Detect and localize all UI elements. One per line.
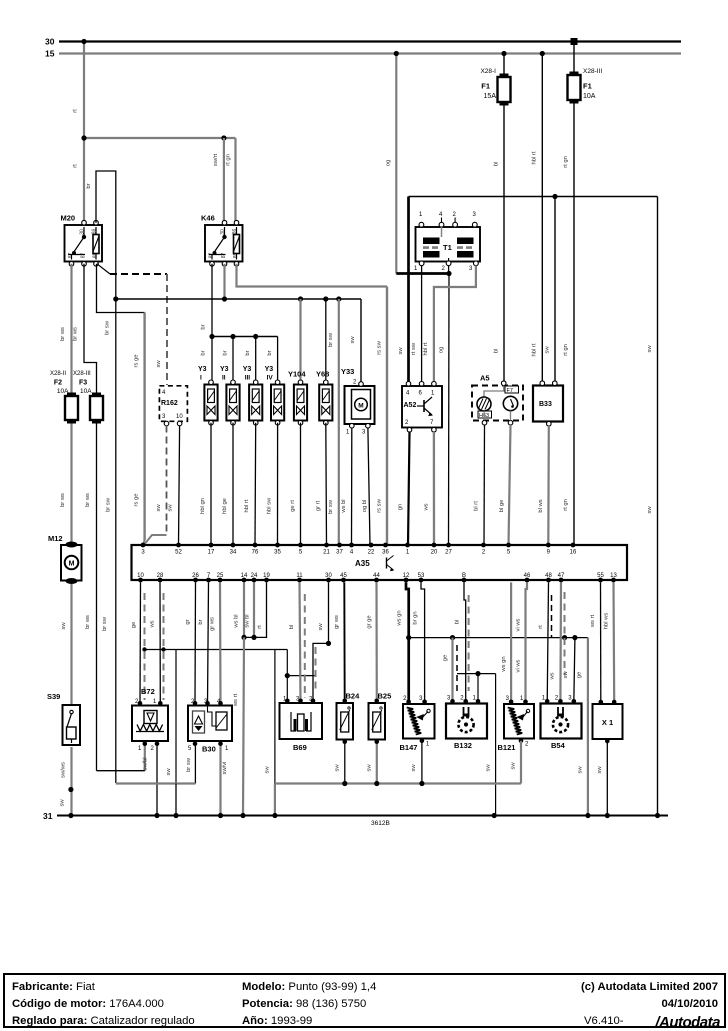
svg-text:B24: B24 [346,692,361,701]
svg-text:F2: F2 [54,380,62,387]
svg-text:28: 28 [157,573,164,579]
svg-text:gr: gr [185,619,191,624]
svg-text:br: br [267,350,273,355]
svg-text:T1: T1 [443,243,452,252]
svg-text:sw/ws: sw/ws [61,762,67,778]
svg-text:sw: sw [166,768,172,776]
svg-text:gr rt: gr rt [316,500,322,511]
svg-text:sw: sw [511,762,517,770]
svg-text:Y68: Y68 [316,370,329,379]
svg-text:Y33: Y33 [341,367,354,376]
svg-text:47: 47 [558,573,565,579]
svg-text:F1: F1 [583,82,592,91]
svg-text:24: 24 [251,573,258,579]
svg-text:sw: sw [398,347,404,355]
svg-text:rt gn: rt gn [563,156,569,168]
svg-text:K46: K46 [201,214,215,223]
svg-text:bl rt: bl rt [474,501,480,511]
svg-text:br sw: br sw [105,320,111,335]
svg-text:rs sw: rs sw [377,340,383,354]
svg-text:F3: F3 [79,380,87,387]
svg-text:10A: 10A [583,93,596,100]
svg-text:21: 21 [323,550,330,556]
svg-text:br: br [201,324,207,329]
svg-text:11: 11 [296,573,303,579]
svg-text:M: M [358,403,363,410]
svg-text:III: III [245,375,251,382]
svg-text:rt: rt [257,625,263,629]
svg-text:46: 46 [524,573,531,579]
svg-text:55: 55 [597,573,604,579]
svg-text:76: 76 [252,550,259,556]
svg-text:hbl rt: hbl rt [532,151,538,164]
svg-text:26: 26 [192,573,199,579]
svg-text:44: 44 [373,573,380,579]
svg-text:ws bl: ws bl [341,499,347,513]
svg-text:S39: S39 [47,692,60,701]
svg-text:B121: B121 [498,743,516,752]
svg-text:br sw: br sw [186,757,192,772]
svg-text:ge: ge [577,672,583,678]
svg-text:25: 25 [217,573,224,579]
svg-text:31: 31 [43,811,53,821]
svg-text:10: 10 [137,573,144,579]
svg-text:br sw: br sw [328,499,334,514]
svg-text:hbl sw: hbl sw [267,497,273,514]
svg-text:X28-II: X28-II [50,371,66,377]
svg-text:34: 34 [230,550,237,556]
svg-text:br ws: br ws [85,615,91,629]
svg-text:rt: rt [73,164,79,168]
svg-text:sw/vi: sw/vi [222,762,228,775]
svg-text:20: 20 [431,550,438,556]
svg-text:hbl rt: hbl rt [532,343,538,356]
svg-text:gr ws: gr ws [334,615,340,629]
svg-text:X28-III: X28-III [583,68,602,75]
svg-text:ge: ge [131,622,137,628]
svg-text:I: I [200,375,202,382]
svg-text:3612B: 3612B [371,820,390,827]
svg-text:br: br [201,350,207,355]
svg-text:10A: 10A [80,388,92,395]
svg-text:sw: sw [647,506,653,514]
svg-text:M12: M12 [48,534,63,543]
svg-text:br gn: br gn [413,611,419,624]
svg-text:B33: B33 [539,401,552,408]
svg-text:16: 16 [570,550,577,556]
svg-text:sw: sw [335,764,341,772]
svg-text:87: 87 [81,253,87,259]
svg-text:sw: sw [156,360,162,368]
svg-text:sw: sw [563,671,569,679]
svg-text:13: 13 [610,573,617,579]
svg-text:og bl: og bl [362,500,368,513]
svg-text:rs ge: rs ge [134,355,140,368]
svg-text:br: br [86,183,92,188]
svg-text:hbl ws: hbl ws [604,613,610,630]
svg-text:35: 35 [274,550,281,556]
svg-text:og: og [439,347,445,353]
svg-text:bl: bl [494,349,500,354]
svg-text:F1: F1 [481,82,490,91]
svg-text:sw: sw [647,345,653,353]
svg-text:ws rt: ws rt [233,693,239,707]
svg-text:sw bl: sw bl [245,614,251,627]
svg-text:B72: B72 [141,687,155,696]
svg-text:rs sw: rs sw [377,498,383,512]
svg-text:B147: B147 [400,743,418,752]
svg-text:37: 37 [336,550,343,556]
svg-text:sw: sw [367,764,373,772]
svg-text:36: 36 [382,550,389,556]
svg-text:Y3: Y3 [265,366,274,373]
svg-text:br sw: br sw [102,616,108,631]
svg-text:br: br [223,350,229,355]
svg-text:87: 87 [221,253,227,259]
svg-text:II: II [222,375,226,382]
svg-text:ge: ge [443,655,449,661]
svg-text:ws: ws [550,672,556,680]
svg-text:sw: sw [411,764,417,772]
svg-text:B30: B30 [202,745,216,754]
svg-text:vi ws: vi ws [516,618,522,631]
svg-text:86: 86 [232,229,238,235]
svg-text:Y3: Y3 [243,366,252,373]
svg-text:ws rt: ws rt [590,614,596,628]
svg-text:14: 14 [241,573,248,579]
svg-text:rt gn: rt gn [225,154,231,166]
svg-text:sw: sw [156,504,162,512]
svg-text:F7: F7 [507,388,513,394]
svg-text:hbl gn: hbl gn [200,498,206,514]
svg-text:X28-I: X28-I [480,68,496,75]
svg-text:15: 15 [45,49,55,59]
svg-text:rt gn: rt gn [563,499,569,511]
svg-text:hbl rt: hbl rt [244,499,250,512]
svg-text:hbl rt: hbl rt [423,342,429,355]
svg-text:ws gn: ws gn [397,610,403,626]
svg-text:B69: B69 [293,743,307,752]
svg-text:15A: 15A [484,93,497,100]
svg-text:ws: ws [424,503,430,511]
svg-text:sw/rt: sw/rt [213,153,219,166]
svg-text:Y104: Y104 [288,370,306,379]
svg-text:rt: rt [73,109,79,113]
svg-text:rt: rt [538,625,544,629]
svg-text:gn: gn [398,504,404,510]
svg-text:ws gn: ws gn [501,656,507,672]
svg-text:sw: sw [486,764,492,772]
svg-text:30: 30 [45,37,55,47]
svg-text:sw/bl: sw/bl [143,757,149,770]
svg-text:br ws: br ws [85,493,91,507]
svg-text:B54: B54 [551,741,566,750]
svg-text:X 1: X 1 [602,718,613,727]
svg-text:rt gn: rt gn [563,344,569,356]
svg-text:30: 30 [325,573,332,579]
svg-text:52: 52 [175,550,182,556]
svg-text:bl ws: bl ws [538,499,544,512]
svg-text:45: 45 [340,573,347,579]
svg-text:IV: IV [267,375,274,382]
svg-text:rs ge: rs ge [134,494,140,507]
svg-text:bl: bl [494,162,500,167]
svg-text:sw: sw [318,623,324,631]
svg-text:sw: sw [168,504,174,512]
svg-text:vi ws: vi ws [516,659,522,672]
svg-text:sw: sw [597,766,603,774]
svg-text:B132: B132 [454,741,472,750]
svg-text:bl: bl [455,620,461,625]
svg-text:17: 17 [208,550,215,556]
svg-text:gr ws: gr ws [210,617,216,631]
svg-text:sw: sw [265,766,271,774]
svg-text:ws: ws [150,620,156,628]
svg-text:gr ge: gr ge [367,615,373,628]
svg-text:sw: sw [350,336,356,344]
svg-text:A52: A52 [404,402,417,409]
svg-text:M20: M20 [61,214,76,223]
svg-text:19: 19 [263,573,270,579]
svg-text:M: M [69,561,75,568]
svg-text:br sw: br sw [106,497,112,512]
svg-text:53: 53 [418,573,425,579]
svg-text:12: 12 [403,573,410,579]
svg-text:ge rt: ge rt [290,500,296,512]
svg-text:bl ge: bl ge [499,500,505,513]
svg-text:10: 10 [176,414,183,420]
svg-text:Y3: Y3 [198,366,207,373]
svg-text:sw: sw [61,622,67,630]
svg-text:rt sw: rt sw [411,342,417,355]
svg-text:br ws: br ws [73,327,79,341]
svg-text:A5: A5 [480,374,490,383]
svg-text:sw: sw [578,766,584,774]
svg-text:B: B [462,573,466,579]
svg-text:R162: R162 [161,400,178,407]
svg-text:br ws: br ws [60,327,66,341]
svg-text:br: br [198,619,204,624]
svg-text:bl: bl [289,625,295,630]
svg-text:br ws: br ws [60,493,66,507]
svg-text:30: 30 [220,229,226,235]
svg-text:sw: sw [60,799,66,807]
svg-text:A35: A35 [355,559,370,568]
svg-text:Y3: Y3 [220,366,229,373]
svg-text:22: 22 [368,550,375,556]
svg-text:hbl ge: hbl ge [222,498,228,514]
svg-text:48: 48 [545,573,552,579]
svg-text:sw: sw [545,346,551,354]
svg-text:og: og [386,160,392,166]
svg-text:27: 27 [445,550,452,556]
svg-text:10A: 10A [57,388,69,395]
svg-text:br sw: br sw [328,332,334,347]
svg-text:ws bl: ws bl [234,614,240,628]
svg-text:X28-III: X28-III [73,371,91,377]
svg-text:B25: B25 [378,692,392,701]
svg-text:br: br [245,350,251,355]
